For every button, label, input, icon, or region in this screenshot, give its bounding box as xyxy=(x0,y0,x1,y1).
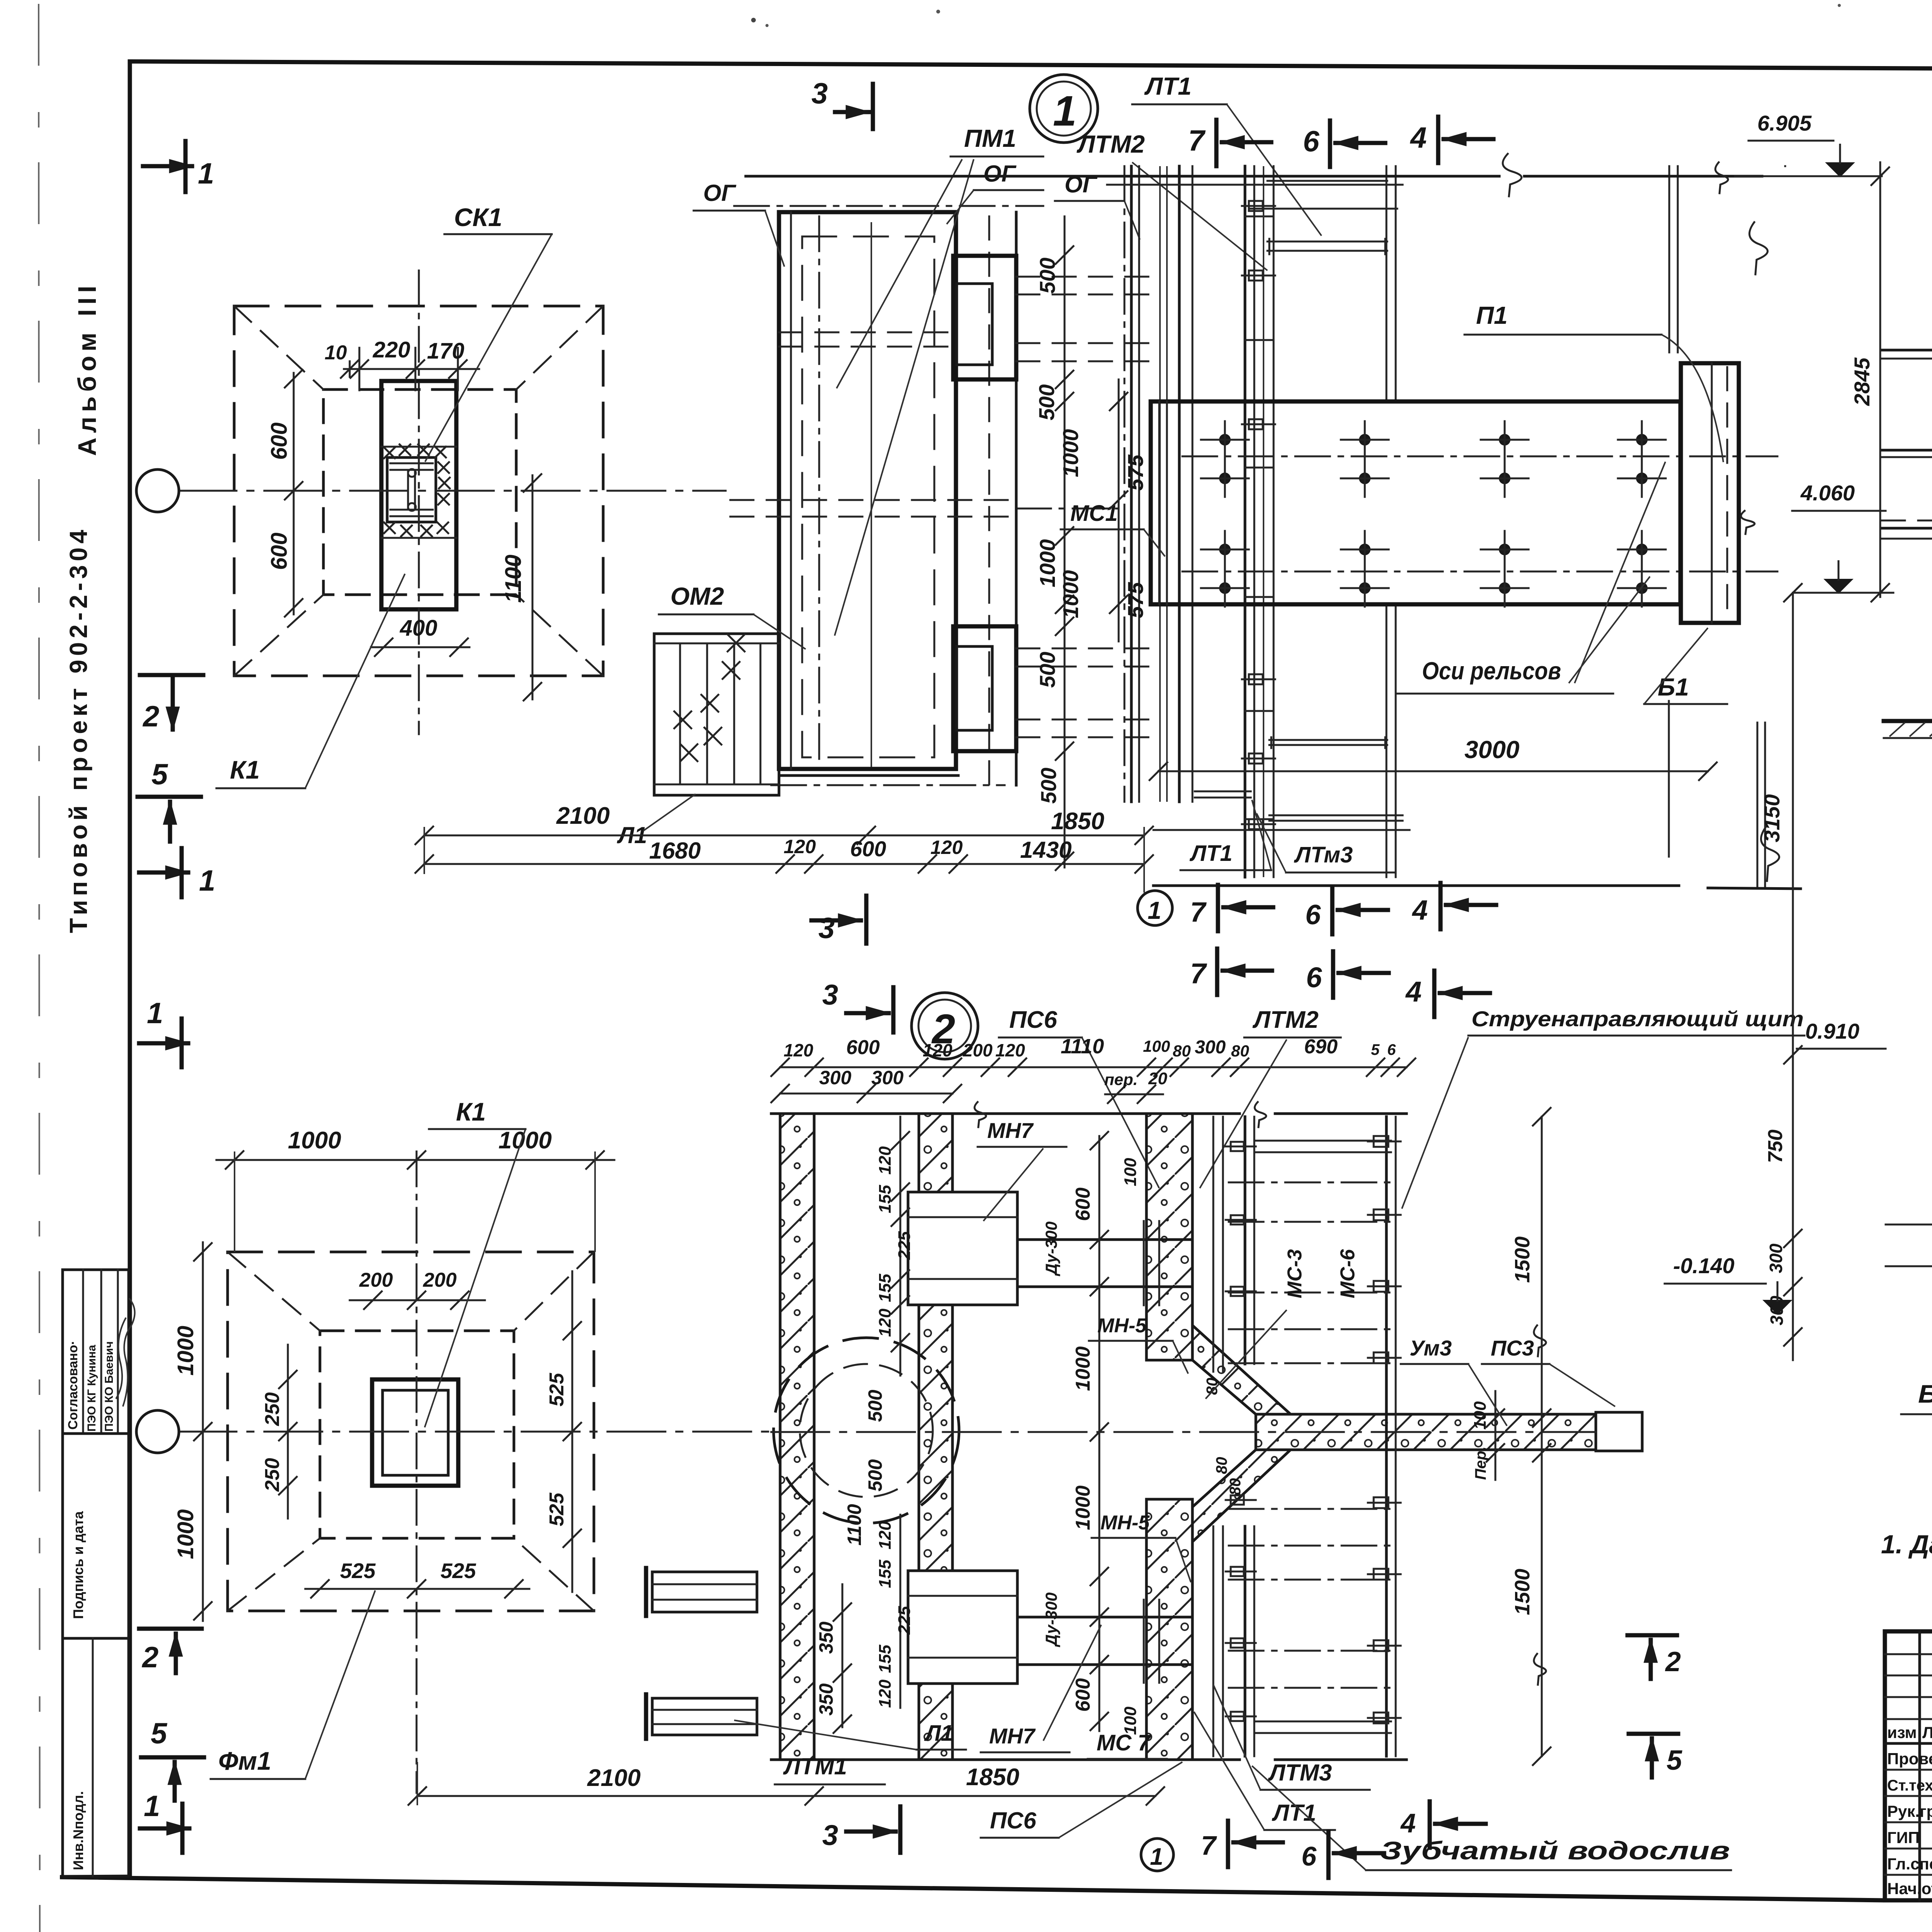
svg-text:120: 120 xyxy=(876,1679,895,1708)
svg-text:5: 5 xyxy=(1371,1041,1380,1058)
svg-text:7: 7 xyxy=(1188,124,1206,157)
svg-text:3: 3 xyxy=(811,77,828,110)
svg-text:220: 220 xyxy=(372,337,410,362)
svg-text:Инв.Nподл.: Инв.Nподл. xyxy=(70,1791,86,1870)
svg-text:225: 225 xyxy=(895,1231,914,1260)
svg-text:500: 500 xyxy=(1035,652,1060,688)
svg-text:120: 120 xyxy=(876,1521,895,1549)
svg-text:Лист: Лист xyxy=(1922,1723,1932,1742)
margin table Подпись и дата xyxy=(63,1434,129,1638)
svg-text:200: 200 xyxy=(423,1269,457,1291)
upper anchor block МН7 xyxy=(908,1192,1017,1305)
svg-text:120: 120 xyxy=(876,1146,895,1175)
left columns xyxy=(1918,1631,1921,1900)
left protruding rails Л1 (node2) xyxy=(652,1572,757,1612)
node2 wall 3 upper (concrete) xyxy=(1146,1114,1192,1360)
svg-text:Б1: Б1 xyxy=(1658,673,1689,701)
svg-text:МН7: МН7 xyxy=(989,1724,1036,1748)
svg-text:80: 80 xyxy=(1231,1042,1249,1060)
svg-text:-0.140: -0.140 xyxy=(1673,1253,1735,1278)
svg-text:690: 690 xyxy=(1304,1036,1338,1058)
svg-text:1000: 1000 xyxy=(1072,1485,1094,1530)
svg-text:7: 7 xyxy=(1190,897,1207,928)
dim chain 2845 xyxy=(1879,162,1881,597)
svg-text:500: 500 xyxy=(1036,768,1061,804)
node2 right flag 2 xyxy=(1628,1633,1677,1638)
svg-text:10: 10 xyxy=(325,342,347,364)
svg-text:1: 1 xyxy=(199,864,215,897)
svg-text:МН7: МН7 xyxy=(987,1118,1034,1143)
svg-text:Струенаправляющий щит: Струенаправляющий щит xyxy=(1471,1007,1804,1031)
svg-text:ЛТ1: ЛТ1 xyxy=(1189,841,1233,866)
svg-text:МН-5: МН-5 xyxy=(1100,1512,1150,1534)
svg-text:400: 400 xyxy=(400,616,437,641)
node2 mid dim chain 600/1000/1000/600 xyxy=(1099,1136,1100,1731)
ladder rungs xyxy=(1245,216,1274,218)
svg-text:0.910: 0.910 xyxy=(1805,1019,1859,1043)
ОГ axis dash-dot above wall xyxy=(734,205,1043,207)
svg-text:575: 575 xyxy=(1123,454,1148,491)
svg-text:Л1: Л1 xyxy=(924,1721,953,1746)
middle wall band 600 xyxy=(1015,212,1018,785)
steel column CK1 I-profile detail xyxy=(387,457,436,522)
svg-text:Типовой проект 902-2-304: Типовой проект 902-2-304 xyxy=(65,526,92,933)
svg-text:80: 80 xyxy=(1227,1478,1244,1496)
dim chain 3150/750/300/300 xyxy=(1792,593,1794,1360)
svg-text:100: 100 xyxy=(1471,1401,1490,1430)
title block outer box xyxy=(1885,1631,1932,1900)
svg-text:575: 575 xyxy=(1123,582,1148,618)
svg-text:6: 6 xyxy=(1305,900,1321,930)
svg-text:3: 3 xyxy=(822,1819,838,1851)
svg-text:Буквенная ось: Буквенная ось xyxy=(1918,1379,1932,1408)
node2 detail circle 2 xyxy=(912,993,978,1059)
svg-text:К1: К1 xyxy=(230,755,260,784)
svg-text:ПС6: ПС6 xyxy=(1009,1007,1057,1033)
svg-text:1000: 1000 xyxy=(1058,570,1083,618)
svg-text:1000: 1000 xyxy=(1072,1346,1094,1391)
margin table Согласовано xyxy=(63,1270,129,1434)
svg-text:Рук.гр.: Рук.гр. xyxy=(1887,1802,1932,1820)
svg-text:80: 80 xyxy=(1213,1457,1230,1475)
footing plan Фм1: outer dashed square xyxy=(228,1252,594,1611)
dimension 3000 xyxy=(1158,770,1708,772)
end bracket Б1 xyxy=(1681,363,1739,623)
corridor extra verticals xyxy=(1159,166,1161,802)
node2 top dimension chain row1 xyxy=(780,1066,1406,1068)
svg-text:300: 300 xyxy=(819,1067,852,1088)
svg-text:5: 5 xyxy=(1667,1745,1682,1776)
node1 bottom dim chain xyxy=(424,835,1144,837)
svg-text:5: 5 xyxy=(151,758,168,791)
svg-text:ПС6: ПС6 xyxy=(990,1808,1036,1833)
svg-text:300: 300 xyxy=(871,1067,904,1088)
svg-text:Зубчатый водослив: Зубчатый водослив xyxy=(1380,1836,1730,1865)
lower pipe Ду-300 xyxy=(1017,1616,1192,1619)
svg-text:1100: 1100 xyxy=(844,1504,865,1546)
svg-text:7: 7 xyxy=(1190,957,1207,990)
rail axes dash-dot xyxy=(1182,456,1777,457)
dimension 525/525 right xyxy=(571,1271,573,1592)
walkway beams right (node2) xyxy=(1385,1117,1388,1756)
svg-text:600: 600 xyxy=(850,837,886,861)
guard rails xyxy=(1882,349,1932,352)
svg-text:500: 500 xyxy=(1035,258,1060,294)
svg-text:155: 155 xyxy=(876,1185,895,1213)
svg-text:3000: 3000 xyxy=(1464,736,1519,764)
svg-text:Альбом III: Альбом III xyxy=(73,281,101,456)
margin signatures squiggle xyxy=(123,1298,135,1406)
dimension 525 525 bottom xyxy=(305,1588,529,1590)
node2 dims 100/пер right xyxy=(1495,1391,1497,1480)
node2 horizontal axis xyxy=(771,1431,1596,1433)
node1 detail circle 1 xyxy=(1030,75,1098,143)
section mark 1 (left lower) xyxy=(139,871,188,875)
svg-text:2100: 2100 xyxy=(556,803,610,829)
svg-text:Ст.техник: Ст.техник xyxy=(1887,1777,1932,1794)
svg-text:ПС3: ПС3 xyxy=(1491,1336,1534,1360)
svg-text:155: 155 xyxy=(876,1560,895,1588)
svg-text:1680: 1680 xyxy=(649,838,701,864)
ground line with hatch xyxy=(1884,719,1932,723)
svg-text:6: 6 xyxy=(1387,1041,1396,1058)
crane beam plate П1 xyxy=(1151,401,1680,604)
svg-text:1500: 1500 xyxy=(1511,1236,1534,1283)
svg-text:1430: 1430 xyxy=(1020,837,1071,863)
svg-text:120: 120 xyxy=(876,1308,895,1337)
svg-text:120: 120 xyxy=(995,1040,1025,1060)
node2 dim chain left wall xyxy=(900,1117,901,1376)
right rail verticals xyxy=(1386,166,1388,401)
lower beam seat МН xyxy=(953,626,1016,751)
node2 bottom axis circle 1 xyxy=(1141,1838,1173,1871)
svg-text:4.060: 4.060 xyxy=(1800,481,1855,505)
dimension 200 200 xyxy=(350,1299,485,1301)
dimension 10/220/170 xyxy=(344,368,479,370)
dimension 1100 xyxy=(532,475,534,699)
svg-text:3150: 3150 xyxy=(1760,794,1784,842)
svg-text:120: 120 xyxy=(784,836,816,857)
svg-text:600: 600 xyxy=(846,1036,880,1059)
axis circle marker xyxy=(136,1410,179,1453)
node2 dims 350/350 xyxy=(842,1584,844,1727)
svg-text:Гл.спец.: Гл.спец. xyxy=(1887,1855,1932,1873)
walkway horizontal edges bottom xyxy=(1153,829,1410,831)
svg-text:6: 6 xyxy=(1301,1841,1317,1871)
pit slope diagonals xyxy=(228,1252,320,1331)
node2 wall 1 (concrete) xyxy=(780,1114,814,1760)
svg-text:2: 2 xyxy=(142,700,159,733)
node2 right dim 1500/1500 xyxy=(1541,1117,1543,1756)
node2 horizontal trough wall (concrete) xyxy=(1256,1414,1596,1450)
svg-text:155: 155 xyxy=(876,1645,895,1673)
svg-text:20: 20 xyxy=(1148,1069,1167,1088)
column K1 plan square xyxy=(372,1379,458,1486)
svg-text:Ду-300: Ду-300 xyxy=(1042,1221,1060,1276)
svg-text:МС-6: МС-6 xyxy=(1337,1249,1359,1298)
svg-text:1: 1 xyxy=(147,997,163,1030)
svg-text:6.905: 6.905 xyxy=(1757,111,1812,135)
svg-text:225: 225 xyxy=(895,1606,914,1635)
dimension 250/250 xyxy=(287,1345,289,1519)
svg-text:600: 600 xyxy=(267,422,292,460)
svg-text:4: 4 xyxy=(1410,121,1427,154)
dimension 1000|1000 top xyxy=(216,1159,614,1161)
column pier K1 outline xyxy=(381,381,456,609)
svg-text:Нач.отд: Нач.отд xyxy=(1887,1879,1932,1898)
svg-text:3: 3 xyxy=(822,979,838,1011)
svg-text:250: 250 xyxy=(261,1458,284,1492)
svg-text:100: 100 xyxy=(1143,1037,1170,1055)
svg-text:525: 525 xyxy=(546,1492,568,1526)
platform level lines xyxy=(1882,527,1932,530)
upper beam seat МН xyxy=(953,256,1016,379)
svg-text:Ду-300: Ду-300 xyxy=(1042,1592,1060,1647)
svg-text:изм: изм xyxy=(1887,1723,1917,1742)
svg-text:200: 200 xyxy=(963,1040,993,1060)
svg-text:П1: П1 xyxy=(1476,301,1508,329)
node1 bottom axis circle 1 xyxy=(1138,891,1172,925)
svg-text:6: 6 xyxy=(1306,961,1322,993)
svg-text:500: 500 xyxy=(864,1459,886,1492)
svg-text:К1: К1 xyxy=(456,1097,486,1126)
svg-text:ГИП: ГИП xyxy=(1887,1828,1920,1847)
left thin rows xyxy=(1885,1653,1932,1655)
node2 upper boundary line xyxy=(771,1112,1240,1115)
svg-text:1: 1 xyxy=(1150,1844,1163,1870)
svg-text:300: 300 xyxy=(1766,1243,1786,1273)
svg-text:1850: 1850 xyxy=(1051,808,1104,835)
svg-text:300: 300 xyxy=(1195,1037,1226,1058)
signature rows xyxy=(1885,1769,1932,1771)
break zigzags node1 xyxy=(1503,154,1522,196)
svg-text:1. Данный лист см. совместн: 1. Данный лист см. совместно с листами К… xyxy=(1881,1530,1932,1559)
section mark 2 (left) xyxy=(140,673,203,677)
svg-text:1850: 1850 xyxy=(966,1764,1019,1791)
svg-text:1100: 1100 xyxy=(501,554,526,603)
svg-text:500: 500 xyxy=(1034,384,1059,420)
svg-text:Оси рельсов: Оси рельсов xyxy=(1422,657,1561,685)
header row line xyxy=(1885,1742,1932,1745)
node1 vertical dim chain mid xyxy=(1064,216,1066,867)
node2 top dimension chain row2 xyxy=(780,1093,952,1095)
svg-text:1: 1 xyxy=(198,157,214,190)
section top tie line from plan xyxy=(1735,175,1793,177)
svg-text:1: 1 xyxy=(144,1790,160,1823)
svg-text:СК1: СК1 xyxy=(454,203,502,231)
svg-text:ЛТ1: ЛТ1 xyxy=(1144,72,1192,100)
svg-text:Подпись и дата: Подпись и дата xyxy=(70,1511,86,1619)
svg-text:525: 525 xyxy=(440,1559,476,1583)
svg-text:350: 350 xyxy=(815,1621,837,1654)
pit slope dashed diagonals xyxy=(234,306,323,389)
plate bolts 4x4 xyxy=(1220,435,1230,445)
wall axis dashed bands xyxy=(730,499,1016,501)
svg-text:Провер.: Провер. xyxy=(1887,1750,1932,1768)
svg-text:1000: 1000 xyxy=(173,1509,198,1559)
svg-text:600: 600 xyxy=(1072,1187,1094,1221)
svg-text:Фм1: Фм1 xyxy=(218,1747,271,1775)
node2 centre dashed circle xyxy=(774,1338,959,1523)
svg-text:ЛТМ3: ЛТМ3 xyxy=(1268,1760,1332,1786)
svg-text:ЛТм3: ЛТм3 xyxy=(1294,842,1353,867)
ground hatch strokes xyxy=(1889,723,1905,736)
svg-text:5: 5 xyxy=(151,1717,168,1750)
footing plan node: outer excavation dashed square xyxy=(234,306,603,676)
node2 wall 2 (concrete) xyxy=(919,1114,952,1760)
node1 tank wall corner block xyxy=(779,212,956,769)
svg-text:ОГ: ОГ xyxy=(983,161,1017,187)
svg-text:1000: 1000 xyxy=(1058,429,1083,477)
svg-text:Ум3: Ум3 xyxy=(1410,1336,1452,1360)
svg-text:ПЭО КО Баевич: ПЭО КО Баевич xyxy=(103,1341,116,1432)
svg-text:1: 1 xyxy=(1148,896,1162,924)
svg-text:3: 3 xyxy=(818,912,835,945)
ladder ЛТМ2 verticals xyxy=(1244,166,1247,877)
svg-text:750: 750 xyxy=(1764,1129,1787,1163)
svg-text:пер.: пер. xyxy=(1104,1070,1138,1088)
svg-text:1000: 1000 xyxy=(1035,539,1060,587)
svg-text:2100: 2100 xyxy=(587,1765,641,1791)
lower anchor block МН7 xyxy=(908,1571,1017,1684)
node axis centerlines xyxy=(418,270,420,734)
walkway horizontal edges top xyxy=(746,175,1499,178)
svg-text:155: 155 xyxy=(876,1274,895,1302)
svg-text:ПЭО КГ Кунина: ПЭО КГ Кунина xyxy=(85,1345,98,1432)
node2 right flag 5 xyxy=(1629,1732,1678,1736)
svg-text:1000: 1000 xyxy=(173,1326,198,1376)
svg-text:ПМ1: ПМ1 xyxy=(964,124,1016,152)
svg-text:4: 4 xyxy=(1412,895,1428,926)
trough channel ПС3 end xyxy=(1596,1412,1642,1451)
footing plan Фм1: inner dashed square xyxy=(320,1331,514,1538)
dimension 400 xyxy=(371,646,469,648)
footing plan node: inner pit dashed square xyxy=(323,389,516,595)
section mark 2 (bottom left) xyxy=(139,1627,202,1631)
svg-text:ЛТМ2: ЛТМ2 xyxy=(1077,130,1145,158)
svg-text:6: 6 xyxy=(1303,125,1320,158)
svg-text:Пер.: Пер. xyxy=(1472,1446,1489,1480)
pipe runs to shield xyxy=(1016,276,1153,278)
corridor rails verticals xyxy=(1130,166,1133,802)
axis centerlines xyxy=(416,1151,418,1793)
svg-text:ОГ: ОГ xyxy=(703,180,737,206)
node2 bottom boundary xyxy=(771,1759,1240,1761)
svg-text:4: 4 xyxy=(1405,976,1422,1008)
sheet left torn edge xyxy=(39,4,40,1932)
svg-text:80: 80 xyxy=(1173,1042,1191,1060)
svg-text:525: 525 xyxy=(546,1372,568,1406)
svg-text:Согласовано·: Согласовано· xyxy=(66,1340,80,1430)
svg-text:120: 120 xyxy=(930,837,963,858)
svg-text:500: 500 xyxy=(864,1389,886,1422)
svg-text:МС1: МС1 xyxy=(1070,501,1117,526)
svg-text:ОМ2: ОМ2 xyxy=(670,582,724,610)
beam end bolts (node2) xyxy=(1374,1136,1388,1147)
svg-text:525: 525 xyxy=(340,1559,376,1583)
scan specks top xyxy=(751,18,756,22)
svg-text:600: 600 xyxy=(267,532,292,570)
svg-text:ЛТМ2: ЛТМ2 xyxy=(1252,1007,1318,1033)
svg-text:4: 4 xyxy=(1400,1808,1416,1838)
svg-text:ЛТМ1: ЛТМ1 xyxy=(783,1753,847,1779)
svg-text:МН-5: МН-5 xyxy=(1097,1315,1147,1337)
svg-text:120: 120 xyxy=(923,1040,952,1060)
svg-text:2: 2 xyxy=(141,1641,158,1674)
svg-text:1000: 1000 xyxy=(288,1127,341,1154)
node2 junction diagonals (concrete) xyxy=(1192,1325,1291,1414)
shield verticals (node2) xyxy=(1213,1117,1214,1372)
svg-text:1500: 1500 xyxy=(1511,1569,1534,1615)
svg-text:МС 7: МС 7 xyxy=(1097,1730,1151,1755)
svg-text:1110: 1110 xyxy=(1061,1035,1104,1058)
svg-text:170: 170 xyxy=(427,338,464,364)
axis circle marker xyxy=(136,469,179,512)
svg-text:350: 350 xyxy=(815,1683,837,1716)
svg-text:600: 600 xyxy=(1072,1678,1094,1712)
ladder bolts xyxy=(1249,201,1263,211)
dimension 1000/1000 left xyxy=(202,1242,204,1621)
svg-text:2: 2 xyxy=(1665,1646,1681,1677)
svg-text:100: 100 xyxy=(1121,1158,1140,1186)
upper pipe Ду-300 xyxy=(1017,1238,1192,1241)
svg-text:1: 1 xyxy=(1053,87,1077,135)
svg-text:7: 7 xyxy=(1201,1830,1217,1861)
left rail piece Л1 (node1) xyxy=(654,634,779,795)
dimension 600/600 vertical xyxy=(293,373,295,614)
margin table Инв N подл xyxy=(63,1638,129,1876)
weld x-marks around CK1 xyxy=(384,447,395,458)
svg-text:МС-3: МС-3 xyxy=(1284,1249,1306,1298)
section mark 1 (top left) xyxy=(143,164,192,168)
svg-text:250: 250 xyxy=(261,1392,284,1426)
svg-text:200: 200 xyxy=(359,1269,393,1291)
svg-text:2845: 2845 xyxy=(1850,357,1874,406)
node2 wall 3 lower (concrete) xyxy=(1146,1499,1192,1760)
svg-text:120: 120 xyxy=(784,1040,813,1060)
